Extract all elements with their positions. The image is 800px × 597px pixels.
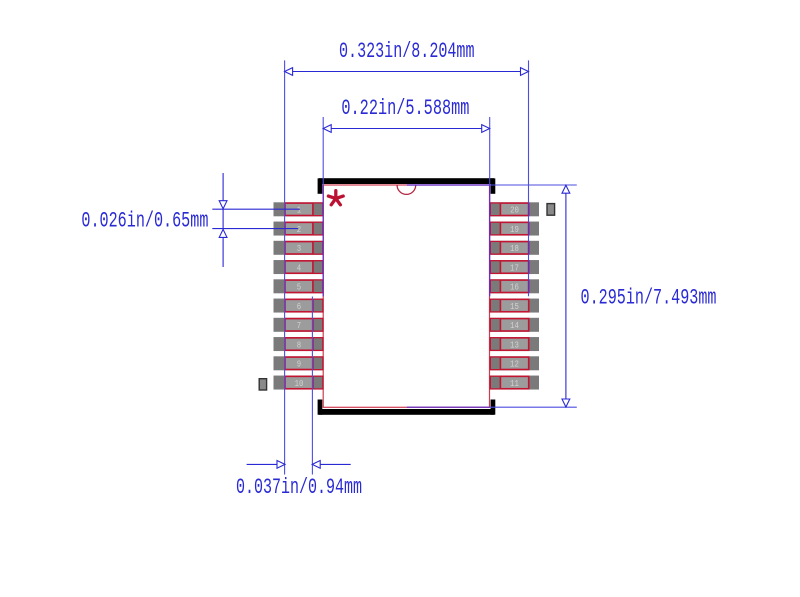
svg-text:16: 16 (510, 282, 519, 293)
bottom dim arrow leader right (312, 461, 351, 469)
pitch leader pin1 center (212, 208, 299, 210)
right dim extension bottom y=407.2 (407, 406, 577, 408)
extension line left pad edge x=284.6 (284, 60, 286, 474)
svg-text:0.026in/0.65mm: 0.026in/0.65mm (81, 209, 208, 234)
orientation marker square (top right) (547, 204, 555, 216)
svg-text:0.295in/7.493mm: 0.295in/7.493mm (581, 285, 717, 310)
silkscreen bottom-right corner stub (491, 400, 496, 415)
svg-text:15: 15 (510, 301, 519, 312)
svg-text:0.323in/8.204mm: 0.323in/8.204mm (339, 39, 475, 64)
pin 3 pad (left) (274, 241, 323, 255)
silkscreen top bar (319, 178, 495, 184)
svg-text:1: 1 (297, 205, 302, 216)
svg-text:10: 10 (295, 378, 304, 389)
pitch leader pin2 center (212, 228, 298, 230)
svg-text:8: 8 (297, 339, 302, 350)
svg-text:13: 13 (510, 339, 519, 350)
right dim extension top y=185 (407, 184, 577, 186)
silkscreen top-left corner stub (318, 178, 323, 193)
svg-text:9: 9 (297, 359, 302, 370)
orientation marker square (bottom left) (259, 379, 266, 390)
pin 13 pad (right) (490, 337, 539, 351)
svg-text:2: 2 (297, 224, 302, 235)
svg-text:3: 3 (297, 243, 302, 254)
svg-text:6: 6 (297, 301, 302, 312)
svg-text:18: 18 (510, 243, 519, 254)
svg-text:17: 17 (510, 262, 519, 273)
pin 2 pad (left) (274, 222, 323, 236)
pin 18 pad (right) (490, 241, 539, 255)
pitch dimension arrows (219, 201, 227, 238)
pin 8 pad (left) (274, 337, 323, 351)
purple overlaps of x=528.5 line over pad outlines (528, 203, 530, 293)
pin-1 end notch arc (397, 185, 416, 194)
extension line body right x=489.7 (489, 117, 491, 296)
pin 6 pad (left) (274, 299, 323, 313)
svg-text:7: 7 (297, 320, 301, 331)
svg-text:11: 11 (510, 378, 519, 389)
pin 7 pad (left) (274, 318, 323, 332)
svg-text:0.037in/0.94mm: 0.037in/0.94mm (236, 475, 362, 500)
bottom dim arrow leader left (247, 461, 285, 469)
pin-1 marker asterisk (328, 191, 343, 205)
extension line pad width x=312.2 (311, 297, 313, 475)
pin 9 pad (left) (274, 356, 323, 370)
extension line right pad edge x=528.5 (528, 60, 530, 296)
dimension 0.323in line (285, 68, 529, 76)
pin 5 pad (left) (274, 279, 323, 293)
svg-text:0.22in/5.588mm: 0.22in/5.588mm (341, 96, 469, 121)
svg-text:20: 20 (510, 205, 519, 216)
dimension 0.295in vertical line (562, 185, 570, 407)
silkscreen bottom-left corner stub (318, 400, 323, 415)
svg-text:14: 14 (510, 320, 519, 331)
pin 12 pad (right) (490, 356, 539, 370)
pin 10 pad (left) (274, 376, 323, 390)
pin 16 pad (right) (490, 279, 539, 293)
svg-text:4: 4 (297, 262, 302, 273)
pin 14 pad (right) (490, 318, 539, 332)
IC body outline (323, 185, 489, 407)
svg-text:12: 12 (510, 359, 519, 370)
silkscreen bottom bar (319, 409, 495, 415)
svg-text:5: 5 (297, 282, 302, 293)
pin 19 pad (right) (490, 222, 539, 236)
dimension 0.22in line (323, 125, 490, 133)
pitch dimension vertical line x=223.1 (222, 173, 224, 267)
pin 1 pad (left) (274, 202, 323, 216)
pin 20 pad (right) (490, 202, 539, 216)
silkscreen top-right corner stub (491, 178, 496, 193)
pin 17 pad (right) (490, 260, 539, 274)
extension line body left x=323.2 (322, 117, 324, 296)
pin 4 pad (left) (274, 260, 323, 274)
pin 11 pad (right) (490, 376, 539, 390)
svg-text:19: 19 (510, 224, 519, 235)
pin 15 pad (right) (490, 299, 539, 313)
